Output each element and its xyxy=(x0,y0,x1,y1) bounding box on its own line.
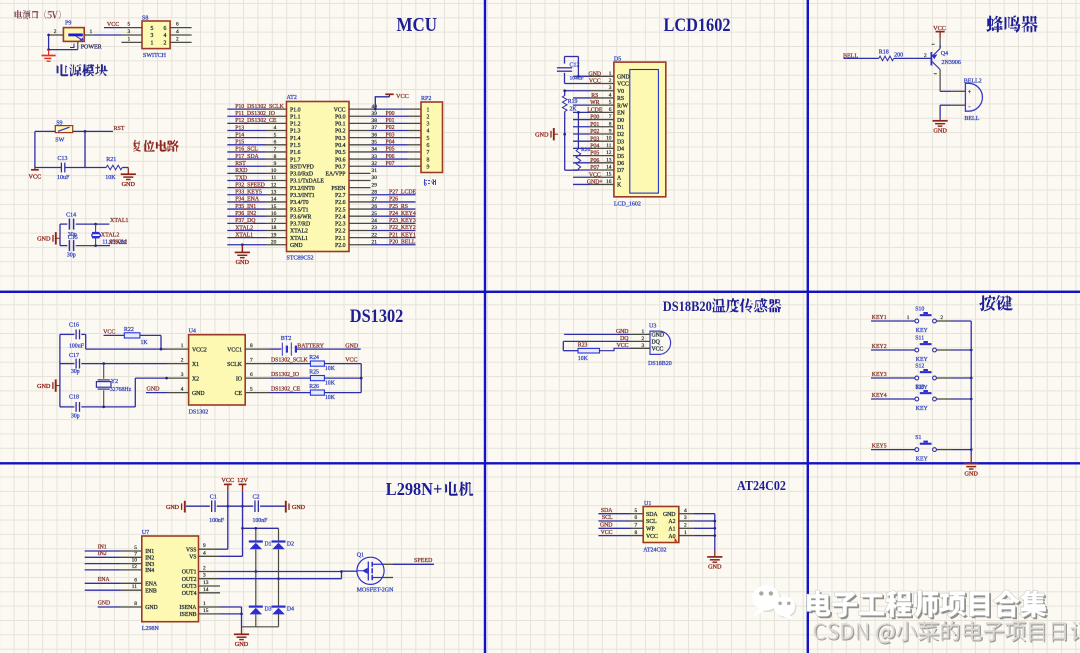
svg-text:1: 1 xyxy=(609,71,612,77)
svg-text:IN4: IN4 xyxy=(145,568,154,574)
svg-text:P1.6: P1.6 xyxy=(290,150,301,156)
svg-text:VCC: VCC xyxy=(589,79,601,85)
svg-text:P00: P00 xyxy=(386,111,395,117)
svg-text:3: 3 xyxy=(151,33,154,39)
svg-text:S10: S10 xyxy=(915,306,924,312)
svg-text:XTAL1: XTAL1 xyxy=(110,218,129,224)
svg-text:5: 5 xyxy=(609,100,612,106)
svg-text:IN2: IN2 xyxy=(98,551,107,557)
svg-text:GND: GND xyxy=(292,505,306,511)
svg-text:DS1302_IO: DS1302_IO xyxy=(271,372,299,378)
svg-text:C1: C1 xyxy=(210,495,217,501)
svg-text:LCD_1602: LCD_1602 xyxy=(614,201,641,207)
svg-text:P02: P02 xyxy=(590,129,599,135)
svg-text:KEY3: KEY3 xyxy=(872,372,887,378)
svg-text:6: 6 xyxy=(164,26,167,32)
svg-text:P35_IN1: P35_IN1 xyxy=(235,204,256,210)
svg-text:S11: S11 xyxy=(915,335,924,341)
svg-text:6: 6 xyxy=(134,577,137,583)
svg-text:P26: P26 xyxy=(389,197,398,203)
svg-text:KEY: KEY xyxy=(916,357,929,363)
svg-text:POWER: POWER xyxy=(81,44,102,50)
svg-text:P02: P02 xyxy=(386,125,395,131)
svg-text:GND: GND xyxy=(236,259,250,266)
svg-text:10: 10 xyxy=(132,558,138,564)
svg-text:P07: P07 xyxy=(386,161,395,167)
svg-text:GND+: GND+ xyxy=(587,180,603,186)
svg-text:3: 3 xyxy=(642,343,645,349)
svg-text:D2: D2 xyxy=(617,132,624,138)
svg-text:SDA: SDA xyxy=(601,508,613,514)
svg-text:GND: GND xyxy=(708,564,722,571)
svg-text:GND: GND xyxy=(964,470,978,477)
svg-text:R20: R20 xyxy=(581,147,591,153)
svg-text:1: 1 xyxy=(90,29,93,35)
svg-text:3: 3 xyxy=(128,29,131,35)
svg-text:SPEED: SPEED xyxy=(414,558,433,564)
svg-text:BATTERY: BATTERY xyxy=(297,343,324,349)
svg-text:P05: P05 xyxy=(590,151,599,157)
svg-text:OUT3: OUT3 xyxy=(182,584,197,590)
svg-text:P00: P00 xyxy=(590,115,599,121)
svg-text:P36_IN2: P36_IN2 xyxy=(235,211,256,217)
svg-text:IN1: IN1 xyxy=(98,545,107,551)
svg-text:12: 12 xyxy=(606,150,612,156)
svg-text:P3.1/TxDALE: P3.1/TxDALE xyxy=(290,179,324,185)
svg-text:10K: 10K xyxy=(325,366,336,372)
svg-text:6: 6 xyxy=(609,107,612,113)
svg-text:GND: GND xyxy=(535,132,549,139)
svg-text:P32_SPEED: P32_SPEED xyxy=(235,182,265,188)
svg-text:D3: D3 xyxy=(265,607,272,613)
svg-text:U7: U7 xyxy=(142,530,149,536)
svg-text:C14: C14 xyxy=(66,213,76,219)
svg-text:LCDE: LCDE xyxy=(587,107,603,113)
svg-text:P3.3/INT1: P3.3/INT1 xyxy=(290,193,315,199)
svg-text:13: 13 xyxy=(606,157,612,163)
svg-text:10K: 10K xyxy=(325,380,336,386)
svg-text:20: 20 xyxy=(271,239,277,245)
svg-text:VCC: VCC xyxy=(617,82,629,88)
svg-text:VCC1: VCC1 xyxy=(227,347,242,353)
svg-text:P3.6/WR: P3.6/WR xyxy=(290,214,312,220)
svg-text:14: 14 xyxy=(271,197,277,203)
svg-text:10K: 10K xyxy=(325,395,336,401)
svg-text:R19: R19 xyxy=(568,99,578,105)
svg-text:WP: WP xyxy=(646,527,655,533)
svg-text:MOSFET-2GN: MOSFET-2GN xyxy=(357,587,394,593)
svg-text:P2.6: P2.6 xyxy=(335,200,346,206)
svg-text:GND: GND xyxy=(37,236,51,243)
svg-text:D4: D4 xyxy=(287,607,294,613)
svg-text:P37_DQ: P37_DQ xyxy=(235,218,256,224)
svg-text:U3: U3 xyxy=(649,323,656,329)
svg-text:KEY: KEY xyxy=(916,328,929,334)
svg-text:2: 2 xyxy=(684,523,687,529)
svg-text:ENA: ENA xyxy=(145,582,158,588)
svg-text:GND: GND xyxy=(98,601,111,607)
svg-text:31: 31 xyxy=(372,168,378,174)
svg-text:8: 8 xyxy=(635,530,638,536)
svg-text:2: 2 xyxy=(203,566,206,572)
svg-text:10: 10 xyxy=(271,168,277,174)
svg-text:3: 3 xyxy=(427,122,430,128)
svg-text:12V: 12V xyxy=(237,477,248,484)
svg-text:P1.2: P1.2 xyxy=(290,122,301,128)
svg-text:P14: P14 xyxy=(235,132,244,138)
svg-text:SCLK: SCLK xyxy=(227,362,243,368)
svg-text:P0.6: P0.6 xyxy=(335,157,346,163)
svg-text:SCL: SCL xyxy=(646,519,657,525)
svg-text:11: 11 xyxy=(132,584,137,590)
svg-text:5: 5 xyxy=(134,545,137,551)
svg-text:GND: GND xyxy=(290,243,303,249)
svg-text:8: 8 xyxy=(609,121,612,127)
svg-text:6: 6 xyxy=(635,515,638,521)
svg-text:TXD: TXD xyxy=(235,175,247,181)
svg-text:GND: GND xyxy=(166,505,180,511)
svg-text:GND: GND xyxy=(600,523,613,529)
svg-text:S12: S12 xyxy=(915,363,924,369)
svg-text:200: 200 xyxy=(894,53,903,59)
svg-text:V0: V0 xyxy=(617,89,624,95)
svg-text:XTAL2: XTAL2 xyxy=(109,240,128,246)
svg-text:2N3906: 2N3906 xyxy=(942,60,961,66)
svg-text:-: - xyxy=(968,104,970,110)
svg-text:GND: GND xyxy=(663,512,676,518)
svg-text:GND: GND xyxy=(617,75,630,81)
svg-text:VCC: VCC xyxy=(345,357,357,363)
svg-text:SDA: SDA xyxy=(646,512,658,518)
svg-text:P03: P03 xyxy=(590,136,599,142)
svg-text:DS1302: DS1302 xyxy=(189,410,209,416)
svg-text:OUT4: OUT4 xyxy=(182,591,197,597)
svg-text:P0.7: P0.7 xyxy=(335,164,346,170)
svg-text:9: 9 xyxy=(427,164,430,170)
svg-text:SCL: SCL xyxy=(602,515,613,521)
svg-text:18: 18 xyxy=(271,225,277,231)
svg-text:12: 12 xyxy=(132,564,138,570)
svg-text:19: 19 xyxy=(271,232,277,238)
svg-text:OUT2: OUT2 xyxy=(182,577,197,583)
svg-text:D0: D0 xyxy=(617,118,624,124)
svg-text:2: 2 xyxy=(54,29,57,35)
svg-text:1: 1 xyxy=(203,601,206,607)
svg-text:RST: RST xyxy=(235,161,246,167)
svg-text:R26: R26 xyxy=(309,384,319,390)
svg-text:P3.5/T1: P3.5/T1 xyxy=(290,207,309,213)
svg-text:P06: P06 xyxy=(386,154,395,160)
svg-text:14: 14 xyxy=(203,587,209,593)
svg-text:P2.3: P2.3 xyxy=(335,222,346,228)
svg-text:VCC: VCC xyxy=(103,329,115,335)
svg-text:P24_KEY4: P24_KEY4 xyxy=(389,211,416,217)
svg-text:2: 2 xyxy=(609,78,612,84)
svg-text:8: 8 xyxy=(134,601,137,607)
svg-text:KEY1: KEY1 xyxy=(872,315,887,321)
svg-text:P01: P01 xyxy=(590,122,599,128)
svg-text:R/W: R/W xyxy=(617,103,628,109)
svg-text:P2.7: P2.7 xyxy=(335,193,346,199)
svg-text:OUT1: OUT1 xyxy=(182,570,197,576)
svg-text:RXD: RXD xyxy=(235,168,247,174)
svg-text:P2.0: P2.0 xyxy=(335,243,346,249)
svg-text:P2.1: P2.1 xyxy=(335,236,346,242)
svg-text:P0.3: P0.3 xyxy=(335,136,346,142)
svg-text:PSEN: PSEN xyxy=(331,186,346,192)
svg-text:2: 2 xyxy=(176,36,179,42)
svg-text:16: 16 xyxy=(606,179,612,185)
svg-text:104uF: 104uF xyxy=(570,76,584,82)
svg-text:P1.5: P1.5 xyxy=(290,143,301,149)
svg-text:GND: GND xyxy=(345,343,359,349)
svg-text:+: + xyxy=(968,90,971,96)
svg-text:P3.4/T0: P3.4/T0 xyxy=(290,200,309,206)
svg-text:P07: P07 xyxy=(590,165,599,171)
svg-text:7: 7 xyxy=(134,551,137,557)
svg-text:ISENA: ISENA xyxy=(179,605,197,611)
svg-text:GND: GND xyxy=(235,641,249,648)
svg-text:4: 4 xyxy=(274,125,277,131)
svg-text:17: 17 xyxy=(271,218,277,224)
svg-text:BELL: BELL xyxy=(964,116,979,122)
svg-text:8: 8 xyxy=(274,154,277,160)
svg-text:P05: P05 xyxy=(386,147,395,153)
svg-text:RST: RST xyxy=(114,126,125,132)
svg-text:SWITCH: SWITCH xyxy=(143,53,167,59)
svg-text:P16_SCL: P16_SCL xyxy=(235,147,258,153)
svg-text:6: 6 xyxy=(427,143,430,149)
svg-text:1: 1 xyxy=(128,36,131,42)
svg-text:4: 4 xyxy=(684,508,687,514)
svg-text:10K: 10K xyxy=(105,175,116,181)
svg-text:3: 3 xyxy=(181,372,184,378)
svg-text:S1: S1 xyxy=(915,435,921,441)
svg-text:R25: R25 xyxy=(309,369,319,375)
svg-text:P2.4: P2.4 xyxy=(335,214,346,220)
svg-text:C16: C16 xyxy=(69,322,79,328)
svg-text:GND: GND xyxy=(589,71,602,77)
svg-text:D7: D7 xyxy=(617,168,624,174)
svg-text:1: 1 xyxy=(642,329,645,335)
svg-text:GND: GND xyxy=(37,383,51,390)
svg-text:P1.7: P1.7 xyxy=(290,157,301,163)
svg-text:P0.0: P0.0 xyxy=(335,114,346,120)
svg-text:P25_RS: P25_RS xyxy=(389,204,408,210)
svg-text:R24: R24 xyxy=(309,355,319,361)
svg-text:15: 15 xyxy=(203,608,209,614)
svg-text:P9: P9 xyxy=(65,21,71,27)
svg-text:R23: R23 xyxy=(578,343,588,349)
svg-text:30p: 30p xyxy=(67,253,76,259)
svg-text:D1: D1 xyxy=(617,125,624,131)
svg-text:AT24C02: AT24C02 xyxy=(737,478,786,493)
svg-text:11: 11 xyxy=(606,143,611,149)
svg-text:16: 16 xyxy=(271,211,277,217)
svg-text:IO: IO xyxy=(236,376,242,382)
svg-text:P1.0: P1.0 xyxy=(290,107,301,113)
svg-text:C17: C17 xyxy=(69,353,79,359)
svg-text:A1: A1 xyxy=(668,527,675,533)
svg-text:D5: D5 xyxy=(617,154,624,160)
svg-text:WR: WR xyxy=(590,100,599,106)
svg-text:P34_ENA: P34_ENA xyxy=(235,197,260,203)
svg-text:RP2: RP2 xyxy=(421,96,431,102)
svg-text:11: 11 xyxy=(271,175,276,181)
svg-text:RS: RS xyxy=(617,96,624,102)
svg-text:X2: X2 xyxy=(192,376,199,382)
svg-text:P1.1: P1.1 xyxy=(290,114,301,120)
svg-text:P2.2: P2.2 xyxy=(335,229,346,235)
svg-text:P3.2/INT0: P3.2/INT0 xyxy=(290,186,315,192)
svg-text:VCC: VCC xyxy=(334,107,346,113)
svg-text:8: 8 xyxy=(250,343,253,349)
svg-text:DS1302_SCLK: DS1302_SCLK xyxy=(271,358,309,364)
svg-text:IN3: IN3 xyxy=(145,562,154,568)
svg-text:LCD1602: LCD1602 xyxy=(664,15,731,36)
svg-text:P22_KEY2: P22_KEY2 xyxy=(389,225,416,231)
svg-text:IN2: IN2 xyxy=(145,556,154,562)
svg-text:L298N+: L298N+ xyxy=(386,479,443,499)
svg-text:R18: R18 xyxy=(879,50,889,56)
svg-text:15: 15 xyxy=(271,204,277,210)
svg-text:2: 2 xyxy=(181,358,184,364)
svg-text:2: 2 xyxy=(642,336,645,342)
svg-text:GND: GND xyxy=(192,391,205,397)
svg-text:7: 7 xyxy=(250,358,253,364)
svg-text:1K: 1K xyxy=(141,340,149,346)
svg-text:VCC: VCC xyxy=(396,93,409,100)
svg-text:2K: 2K xyxy=(570,107,578,113)
svg-text:1: 1 xyxy=(151,41,154,47)
svg-text:RS: RS xyxy=(591,93,598,99)
svg-text:10K: 10K xyxy=(578,356,589,362)
svg-text:MCU: MCU xyxy=(397,15,438,36)
svg-text:P3.0/RxD: P3.0/RxD xyxy=(290,172,313,178)
svg-text:7: 7 xyxy=(609,114,612,120)
svg-text:4: 4 xyxy=(164,33,167,39)
svg-text:7: 7 xyxy=(635,523,638,529)
svg-text:9: 9 xyxy=(274,161,277,167)
svg-text:GND: GND xyxy=(122,181,136,188)
svg-text:GND: GND xyxy=(652,333,665,339)
svg-text:29: 29 xyxy=(372,182,378,188)
svg-text:P15: P15 xyxy=(235,140,244,146)
svg-text:1: 1 xyxy=(684,530,687,536)
svg-text:100uF: 100uF xyxy=(69,343,85,349)
svg-text:DQ: DQ xyxy=(652,340,661,346)
svg-text:R21: R21 xyxy=(106,157,116,163)
svg-text:2: 2 xyxy=(940,315,943,321)
svg-text:4: 4 xyxy=(181,387,184,393)
svg-text:Q1: Q1 xyxy=(357,552,364,558)
svg-text:12: 12 xyxy=(271,182,277,188)
svg-text:GND: GND xyxy=(147,386,161,392)
svg-text:3: 3 xyxy=(609,85,612,91)
svg-text:VSS: VSS xyxy=(186,547,197,553)
svg-text:KEY: KEY xyxy=(916,456,929,462)
svg-text:4: 4 xyxy=(609,92,612,98)
svg-text:1: 1 xyxy=(181,343,184,349)
svg-text:KEY: KEY xyxy=(916,406,929,412)
svg-text:A2: A2 xyxy=(668,519,675,525)
svg-text:P27_LCDE: P27_LCDE xyxy=(389,189,417,195)
svg-text:P2.5: P2.5 xyxy=(335,207,346,213)
svg-text:4: 4 xyxy=(203,550,206,556)
svg-text:10: 10 xyxy=(606,136,612,142)
svg-text:C13: C13 xyxy=(58,156,68,162)
svg-text:P21_KEY1: P21_KEY1 xyxy=(389,232,416,238)
svg-text:3: 3 xyxy=(203,573,206,579)
svg-text:1: 1 xyxy=(427,107,430,113)
svg-text:DS1302: DS1302 xyxy=(350,306,404,327)
svg-text:P1.3: P1.3 xyxy=(290,129,301,135)
svg-text:CE: CE xyxy=(235,391,243,397)
svg-text:VCC: VCC xyxy=(29,173,42,180)
svg-text:AT24C02: AT24C02 xyxy=(643,548,666,554)
svg-text:STC89C52: STC89C52 xyxy=(287,256,314,262)
svg-text:DS1302_CE: DS1302_CE xyxy=(271,387,301,393)
svg-text:P1.4: P1.4 xyxy=(290,136,301,142)
svg-text:VCC: VCC xyxy=(589,172,601,178)
svg-text:VCC: VCC xyxy=(601,530,613,536)
svg-text:7: 7 xyxy=(427,150,430,156)
svg-text:ENB: ENB xyxy=(145,588,157,594)
svg-text:P11_DS1302_IO: P11_DS1302_IO xyxy=(235,111,275,117)
svg-text:KEY2: KEY2 xyxy=(872,344,887,350)
svg-text:BT2: BT2 xyxy=(281,336,292,342)
svg-text:XTAL2: XTAL2 xyxy=(101,233,120,239)
svg-text:14: 14 xyxy=(606,165,612,171)
svg-text:1: 1 xyxy=(907,315,910,321)
svg-text:5: 5 xyxy=(250,387,253,393)
svg-text:VS: VS xyxy=(189,555,196,561)
svg-text:IN1: IN1 xyxy=(145,549,154,555)
svg-text:XTAL1: XTAL1 xyxy=(290,236,308,242)
svg-text:P03: P03 xyxy=(386,132,395,138)
svg-text:5: 5 xyxy=(274,132,277,138)
svg-text:C15: C15 xyxy=(68,235,78,241)
svg-text:Q4: Q4 xyxy=(941,51,948,57)
svg-text:P17_SDA: P17_SDA xyxy=(235,154,259,160)
svg-text:P20_BELL: P20_BELL xyxy=(389,239,416,245)
svg-text:DS18B20: DS18B20 xyxy=(648,361,672,367)
svg-text:8: 8 xyxy=(427,157,430,163)
svg-text:32768Hz: 32768Hz xyxy=(110,387,132,393)
svg-text:P23_KEY3: P23_KEY3 xyxy=(389,218,416,224)
svg-text:Y2: Y2 xyxy=(111,379,118,385)
svg-text:10uF: 10uF xyxy=(57,175,70,181)
svg-text:4: 4 xyxy=(427,129,430,135)
svg-text:GND: GND xyxy=(933,127,947,134)
svg-text:P33_KEY5: P33_KEY5 xyxy=(235,190,262,196)
svg-text:9: 9 xyxy=(609,128,612,134)
svg-text:EN: EN xyxy=(617,111,626,117)
svg-text:5: 5 xyxy=(128,22,131,28)
svg-text:5: 5 xyxy=(427,136,430,142)
svg-text:P10_DS1302_SCLK: P10_DS1302_SCLK xyxy=(235,104,284,110)
svg-text:XTAL1: XTAL1 xyxy=(235,232,253,238)
svg-text:P0.1: P0.1 xyxy=(335,122,346,128)
svg-text:7: 7 xyxy=(274,147,277,153)
svg-text:VCC: VCC xyxy=(221,477,234,484)
svg-text:AT2: AT2 xyxy=(287,95,297,101)
svg-text:100nF: 100nF xyxy=(253,518,269,524)
svg-text:KEY5: KEY5 xyxy=(872,443,887,449)
svg-text:P04: P04 xyxy=(590,144,599,150)
svg-text:6: 6 xyxy=(274,140,277,146)
svg-text:15: 15 xyxy=(606,172,612,178)
